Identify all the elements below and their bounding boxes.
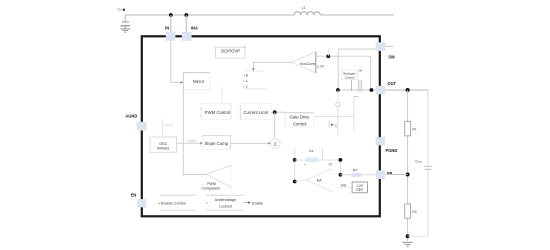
pin EN	[131, 193, 147, 208]
svg-text:UVLO: UVLO	[164, 124, 174, 128]
svg-text:OSC: OSC	[159, 142, 167, 146]
svg-text:L1: L1	[302, 6, 306, 10]
summer node	[271, 139, 280, 148]
wire FB pin to divider sense	[340, 174, 375, 176]
pin INA	[182, 26, 198, 41]
wire R2 to ground	[407, 218, 409, 241]
block reference 1.2V REF	[352, 182, 367, 193]
faint line UVLO box	[162, 119, 164, 137]
block OSC 500kHz	[150, 137, 177, 152]
op-amp EA error amplifier	[295, 169, 333, 192]
wire SW pin internal	[338, 49, 376, 90]
wire internal OUT rail	[338, 89, 376, 91]
wire VccCore output to reference block	[253, 62, 291, 68]
block OCP/OVP	[216, 46, 247, 59]
block Gate Drive Control	[285, 113, 314, 128]
svg-text:INA: INA	[191, 26, 198, 31]
wire OUT external	[385, 89, 428, 91]
wire SW external stub	[386, 45, 394, 47]
svg-text:R2: R2	[412, 210, 416, 214]
wire stub above junction	[327, 49, 329, 57]
svg-text:OUT: OUT	[387, 81, 396, 86]
svg-text:500kHz: 500kHz	[157, 147, 169, 151]
svg-text:Comparator: Comparator	[202, 186, 221, 190]
svg-text:Undervoltage: Undervoltage	[215, 198, 236, 202]
resistor RT	[351, 173, 361, 177]
op-amp VccCore LDO	[291, 52, 324, 73]
svg-text:Current Limit: Current Limit	[243, 110, 268, 115]
pin PGND	[376, 137, 398, 153]
wire junction down to summer	[274, 112, 276, 138]
wire VIN rail left	[125, 15, 294, 22]
junction dot at INA drop	[184, 13, 188, 17]
svg-text:Enable: Enable	[252, 201, 263, 205]
svg-text:Control: Control	[345, 75, 355, 79]
junction dot divider	[406, 173, 410, 177]
wire Vref to EA	[336, 186, 352, 188]
svg-text:EN: EN	[131, 193, 137, 198]
resistor R2	[405, 204, 411, 218]
faint line above PWM control	[221, 88, 223, 104]
wire enable arrow	[244, 202, 249, 204]
label Cin	[118, 8, 125, 12]
junction dot ground node	[406, 234, 410, 238]
line Mirror to PWM comparator	[183, 90, 206, 175]
junction dot comp bottom	[293, 180, 297, 184]
inductor L1	[294, 6, 320, 15]
wire FB pin external	[385, 174, 407, 176]
svg-text:1.7V: 1.7V	[317, 65, 325, 69]
svg-text:OCP/OVP: OCP/OVP	[221, 48, 240, 53]
svg-text:+ 4: + 4	[243, 79, 248, 83]
transistor Q1 body switch	[351, 81, 361, 97]
wire IN pin to Mirror	[171, 41, 181, 83]
capacitor Cin	[121, 22, 130, 29]
wire OSC to Slope Comp	[177, 142, 201, 144]
comp RC network	[295, 159, 341, 161]
wire INA drop	[185, 15, 187, 32]
resistor R1	[405, 121, 411, 136]
pin IN	[165, 26, 175, 41]
block Enable Control	[158, 195, 195, 210]
wire R1 to divider node	[407, 136, 409, 204]
svg-text:Vref: Vref	[341, 183, 347, 187]
block Slope Comp	[203, 135, 231, 149]
junction dot current limit	[273, 110, 277, 114]
svg-text:Σ: Σ	[274, 141, 277, 146]
svg-text:VccCore: VccCore	[300, 61, 316, 66]
svg-text:R1: R1	[412, 128, 416, 132]
svg-text:Mirror: Mirror	[193, 79, 205, 84]
junction dot comp top	[293, 158, 297, 162]
junction dot fb top	[339, 158, 343, 162]
block Backgate Control	[342, 68, 363, 79]
wire down to OUT node	[370, 56, 372, 90]
IC boundary box	[142, 36, 380, 216]
junction dot SW leg	[336, 88, 340, 92]
capacitor Cout	[427, 90, 429, 166]
junction dot fb bottom	[339, 173, 343, 177]
block PWM Control	[201, 102, 231, 120]
svg-text:REF: REF	[356, 188, 363, 192]
wire SW node down with bubble	[337, 90, 339, 102]
wire OUT node down to R1	[407, 90, 409, 121]
slope ramp squiggle	[187, 140, 197, 142]
wire VccCore to SW/OUT rail	[316, 55, 371, 57]
block Current Limit	[240, 104, 271, 120]
svg-text:EA: EA	[317, 179, 323, 183]
svg-text:+: +	[304, 163, 306, 167]
comp network vertical	[294, 149, 296, 182]
svg-text:Vb: Vb	[359, 68, 363, 72]
wire IN drop	[170, 15, 172, 32]
svg-text:Control: Control	[293, 122, 307, 127]
svg-text:• Enable Control: • Enable Control	[158, 202, 186, 206]
svg-text:Cout: Cout	[415, 159, 422, 163]
junction dot OUT node	[406, 88, 410, 92]
transistor gate mark	[329, 121, 336, 128]
svg-text:Gate Drive: Gate Drive	[289, 115, 310, 120]
block reference trim rows	[243, 71, 266, 89]
svg-text:PGND: PGND	[386, 148, 398, 153]
wire VIN rail right of inductor	[320, 14, 393, 16]
svg-text:+ B: + B	[243, 74, 248, 78]
tick on SW leg	[335, 125, 338, 127]
pin FB	[376, 170, 393, 179]
junction dot at IN drop	[169, 13, 173, 17]
svg-text:Ca: Ca	[309, 149, 313, 153]
pin OUT	[376, 81, 397, 94]
wire Slope Comp to summer	[231, 142, 269, 144]
svg-text:SW: SW	[388, 55, 395, 60]
junction dot VccCore rail	[326, 54, 330, 58]
svg-text:IN: IN	[165, 26, 169, 31]
junction dot OUT leg	[370, 88, 374, 92]
svg-text:Slope Comp: Slope Comp	[204, 141, 228, 146]
ground (output divider)	[402, 242, 412, 246]
svg-text:+ 2: + 2	[243, 85, 248, 89]
svg-text:PWM Control: PWM Control	[205, 110, 231, 115]
svg-text:FB: FB	[387, 171, 393, 176]
pin SW	[376, 42, 395, 59]
svg-text:Lockout: Lockout	[219, 205, 232, 209]
wire Cout bottom tie	[408, 235, 428, 237]
op-amp PWM comparator	[202, 165, 232, 190]
wire gate drive to switch gate	[314, 115, 354, 117]
feedback vertical	[339, 160, 341, 175]
block Mirror	[183, 72, 210, 89]
svg-text:AGND: AGND	[125, 113, 137, 118]
svg-text:Cin: Cin	[118, 8, 123, 12]
block Undervoltage Lockout	[206, 195, 244, 210]
pin AGND	[125, 113, 146, 130]
wire Current Limit to Gate Drive	[271, 111, 285, 113]
ground (Cin)	[120, 29, 130, 32]
svg-text:RT: RT	[353, 168, 357, 172]
